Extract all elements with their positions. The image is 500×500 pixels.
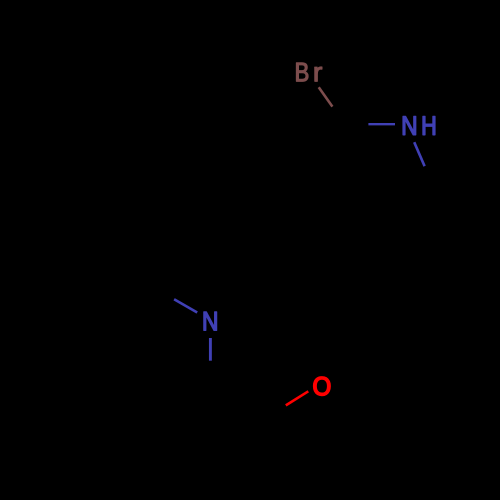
atom label ring N xyxy=(204,312,217,330)
atom label NH letter H xyxy=(423,116,435,134)
bond C-O half segment xyxy=(286,391,309,405)
bond Br-C half segment xyxy=(319,87,333,106)
atom label Br letter r xyxy=(315,67,322,81)
atom label O xyxy=(314,377,330,395)
bond N-C vertical half segment xyxy=(209,338,212,361)
atom label Br letter B xyxy=(296,63,308,81)
bond C-NH horizontal half segment xyxy=(368,123,395,125)
bond NH-C diagonal half segment xyxy=(414,142,424,166)
bond C-N upper-left half segment xyxy=(174,299,197,312)
atom label NH letter N xyxy=(403,116,416,134)
